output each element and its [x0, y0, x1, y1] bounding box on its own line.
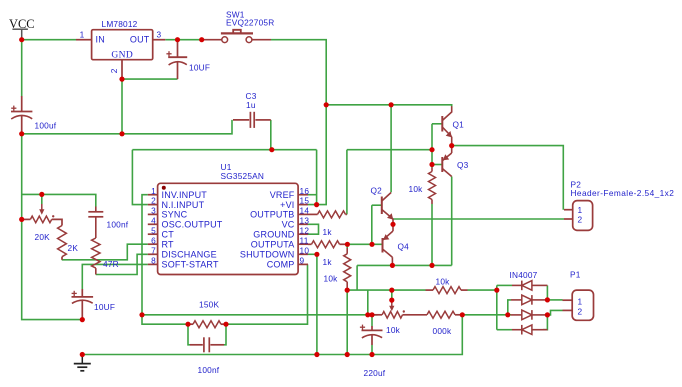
svg-text:10UF: 10UF	[94, 302, 115, 312]
wire 10k2 to bottom rail	[346, 290, 348, 354]
wire D1 left lead	[497, 284, 512, 286]
diode D1 IN4007	[512, 281, 547, 291]
wire Q2 emitter to P2 pin2	[393, 218, 564, 220]
wire 1k to Q4 base	[347, 243, 382, 245]
wire VREF drop to pin16	[316, 150, 318, 205]
resistor 1k pin11	[308, 241, 347, 248]
wire VC to GROUND loop	[308, 224, 319, 234]
resistor 2K	[58, 226, 67, 260]
wire 10k to collector bus	[431, 204, 433, 265]
svg-text:1k: 1k	[323, 257, 333, 267]
capacitor 10UF bottom	[72, 289, 94, 320]
label 10UF top	[189, 63, 210, 73]
svg-text:IN: IN	[96, 35, 105, 45]
svg-text:7: 7	[151, 245, 156, 255]
resistor 1k pin14	[308, 211, 347, 218]
svg-text:Q3: Q3	[457, 160, 469, 170]
label 150K	[199, 300, 219, 310]
label Header-Female-2.54_1x2	[571, 188, 675, 198]
label 1k pin11	[323, 257, 333, 267]
wire INV.INPUT down	[142, 195, 148, 315]
potentiometer 20K	[22, 204, 62, 226]
svg-text:N.I.INPUT: N.I.INPUT	[162, 200, 205, 210]
label 47R	[103, 259, 119, 269]
capacitor C3	[233, 112, 271, 128]
label 20K	[35, 232, 51, 242]
svg-text:1: 1	[151, 186, 156, 196]
svg-text:5: 5	[151, 225, 156, 235]
svg-text:100nf: 100nf	[198, 365, 220, 375]
svg-text:15: 15	[300, 196, 310, 206]
wire collector bus	[357, 264, 452, 266]
wire VCC to LM78012 IN	[22, 39, 76, 41]
pin number 3 of U2	[157, 29, 162, 39]
svg-text:OUTPUTB: OUTPUTB	[250, 210, 294, 220]
wire Q3 base	[432, 164, 442, 166]
svg-text:1k: 1k	[323, 227, 333, 237]
regulator U2 LM78012 body	[76, 30, 165, 79]
wire SHUTDOWN to bottom rail	[316, 254, 318, 354]
svg-text:CT: CT	[162, 230, 175, 240]
label Q4	[398, 241, 410, 251]
pin names right of U1	[240, 190, 295, 270]
svg-text:4: 4	[151, 215, 156, 225]
svg-text:3: 3	[151, 206, 156, 216]
wire left rail	[22, 132, 83, 320]
wire bridge left vertical	[496, 285, 498, 329]
label Q2	[371, 185, 383, 195]
wire D2 left vertical	[508, 300, 511, 315]
wire 000k to bridge	[462, 314, 511, 316]
wire Q2 Q4 base vertical	[371, 205, 373, 244]
wire Q2 base	[372, 204, 382, 206]
pin names left of U1	[162, 190, 223, 270]
pin number 1 of U2	[80, 29, 85, 39]
wire rectifier feed row	[347, 289, 425, 291]
diode D3 IN4007	[511, 310, 547, 320]
svg-text:000k: 000k	[433, 326, 452, 336]
svg-text:Header-Female-2.54_1x2: Header-Female-2.54_1x2	[571, 188, 675, 198]
svg-text:10k: 10k	[386, 325, 401, 335]
wire LM78012 OUT to SW1	[165, 39, 201, 41]
transistor Q1	[442, 106, 452, 137]
wire 100nf right link	[224, 324, 226, 345]
pin numbers right of U1	[300, 186, 310, 266]
wire switched VCC horizontal	[326, 105, 452, 107]
wire D3-D4 right vertical	[543, 315, 547, 330]
label 2K	[68, 243, 79, 253]
potentiometer 10k	[374, 300, 410, 318]
label U1	[221, 162, 232, 172]
wire D4 left lead	[497, 329, 512, 331]
svg-text:VREF: VREF	[270, 190, 295, 200]
pin number 1 of P2	[578, 205, 583, 215]
wire LM GND down	[121, 79, 123, 134]
wire output node to P2	[452, 146, 564, 210]
label SG3525AN	[221, 171, 265, 181]
svg-text:GND: GND	[111, 51, 133, 61]
wire bridge to P1 pin1	[547, 299, 562, 301]
svg-text:10k: 10k	[324, 273, 339, 283]
wire OUTPUTB to Q1 base	[347, 149, 432, 151]
pin number 1 of P1	[578, 297, 583, 307]
label C3	[246, 91, 257, 101]
pin 2 label GND	[111, 51, 133, 61]
wire bridge to P1 pin2	[547, 310, 562, 315]
svg-text:10k: 10k	[409, 184, 424, 194]
svg-text:11: 11	[300, 235, 309, 245]
svg-text:SHUTDOWN: SHUTDOWN	[240, 250, 295, 260]
wire pot-left drop	[367, 290, 369, 315]
svg-text:RT: RT	[162, 240, 175, 250]
svg-text:100nf: 100nf	[107, 219, 129, 229]
label Q3	[457, 160, 469, 170]
capacitor 220uf	[360, 325, 383, 345]
wire Q1 base	[432, 123, 442, 125]
wire SW1 to +VI	[271, 40, 326, 205]
svg-text:14: 14	[300, 206, 310, 216]
wire bus drop left	[356, 265, 358, 290]
label 100nf left	[107, 219, 129, 229]
connector P2 body	[564, 201, 593, 231]
svg-text:13: 13	[300, 215, 310, 225]
pin numbers left of U1	[151, 186, 156, 266]
pin 3 label OUT	[130, 35, 150, 45]
label P2	[571, 179, 582, 189]
transistor Q3	[442, 137, 451, 177]
svg-text:1u: 1u	[246, 100, 256, 110]
wire 10k2 bottom link	[346, 288, 348, 290]
svg-text:2: 2	[578, 215, 583, 225]
capacitor 100uf	[11, 96, 32, 133]
label Q1	[453, 119, 465, 129]
resistor 150K	[188, 321, 226, 328]
wire VREF to N.I.INPUT	[132, 150, 147, 205]
svg-text:GROUND: GROUND	[253, 230, 294, 240]
capacitor 100nf bottom	[190, 337, 224, 352]
svg-text:OUT: OUT	[130, 35, 150, 45]
svg-text:Q1: Q1	[453, 119, 465, 129]
capacitor 10UF top	[166, 40, 187, 79]
svg-text:SYNC: SYNC	[162, 210, 188, 220]
wire node A horizontal	[22, 194, 96, 206]
pin number 2 of P2	[578, 215, 583, 225]
label 10k right	[436, 276, 451, 286]
wire 10k out to bridge	[468, 289, 497, 291]
svg-text:VC: VC	[282, 220, 295, 230]
wire VREF horizontal	[132, 149, 316, 151]
transistor Q2	[382, 193, 393, 220]
diode D2 IN4007	[511, 295, 547, 305]
resistor 000k	[410, 311, 462, 318]
svg-text:12: 12	[300, 225, 310, 235]
svg-text:8: 8	[151, 256, 156, 266]
label EVQ22705R	[226, 18, 274, 28]
resistor 10k upper	[429, 168, 436, 205]
label 100uf	[35, 121, 57, 131]
diode D4 IN4007	[512, 325, 547, 335]
resistor 10k right	[426, 287, 468, 294]
svg-text:EVQ22705R: EVQ22705R	[226, 18, 274, 28]
svg-text:INV.INPUT: INV.INPUT	[162, 190, 208, 200]
svg-text:10UF: 10UF	[189, 63, 210, 73]
wire pot wiper link	[391, 290, 393, 300]
label P1	[570, 269, 581, 279]
svg-text:+VI: +VI	[280, 200, 294, 210]
wire 10k2 top link	[346, 244, 348, 248]
pin number 2 of P1	[578, 307, 583, 317]
ground	[74, 355, 91, 371]
svg-text:47R: 47R	[103, 259, 119, 269]
wire D1-D2 right vertical	[546, 285, 548, 300]
label IN4007	[510, 270, 538, 280]
svg-text:IN4007: IN4007	[510, 270, 538, 280]
resistor 10k mid	[344, 248, 351, 288]
wire Q1 Q3 base vertical	[431, 124, 433, 168]
label 10UF bottom	[94, 302, 115, 312]
svg-text:1: 1	[578, 205, 583, 215]
svg-text:2: 2	[578, 307, 583, 317]
svg-text:150K: 150K	[199, 300, 219, 310]
label 000k	[433, 326, 452, 336]
wire RT to 2K	[62, 244, 148, 260]
label 1u value	[246, 100, 256, 110]
svg-text:SG3525AN: SG3525AN	[221, 171, 265, 181]
label 10k pot	[386, 325, 401, 335]
pin 1 marker of U1	[162, 186, 166, 190]
label 1k pin14	[323, 227, 333, 237]
label SW1	[226, 9, 245, 19]
svg-text:2: 2	[109, 68, 119, 73]
pin number 2 of U2	[109, 68, 119, 73]
wire C3 left to ground net	[22, 120, 232, 134]
pin 1 label IN	[96, 35, 105, 45]
wire to 150K left	[142, 315, 188, 324]
svg-text:OUTPUTA: OUTPUTA	[251, 240, 295, 250]
svg-text:10k: 10k	[436, 276, 451, 286]
wire 220uf top link	[371, 315, 373, 327]
svg-text:DISCHANGE: DISCHANGE	[162, 250, 217, 260]
wire 150K right to COMP	[226, 264, 308, 324]
svg-text:P1: P1	[570, 269, 581, 279]
label 10k mid	[324, 273, 339, 283]
wire Q3 collector down	[451, 177, 453, 266]
svg-text:OSC.OUTPUT: OSC.OUTPUT	[162, 220, 223, 230]
switch SW1 EVQ22705R	[202, 30, 271, 43]
wire bottom rail	[82, 315, 462, 355]
wire 100nf left link	[188, 324, 190, 345]
svg-text:9: 9	[300, 256, 305, 266]
svg-text:100uf: 100uf	[35, 121, 57, 131]
resistor 47R	[92, 238, 100, 275]
svg-text:16: 16	[300, 186, 310, 196]
svg-text:20K: 20K	[35, 232, 51, 242]
power flag VCC	[9, 17, 34, 39]
svg-text:2K: 2K	[68, 243, 79, 253]
svg-text:COMP: COMP	[267, 260, 295, 270]
connector P1 body	[563, 290, 594, 320]
svg-text:10: 10	[300, 245, 310, 255]
wire C3 right lead down	[270, 120, 272, 150]
wire 220uf bottom link	[371, 345, 373, 355]
wire 20K wiper	[41, 194, 43, 204]
svg-text:Q2: Q2	[371, 185, 383, 195]
svg-text:3: 3	[157, 29, 162, 39]
wire SOFT-START to 10UF	[82, 264, 148, 289]
label 220uf	[364, 368, 386, 378]
label 100nf bottom	[198, 365, 220, 375]
wire LM GND to 10UF	[122, 78, 178, 80]
op-amp U1 SG3525AN body	[148, 183, 308, 274]
svg-text:6: 6	[151, 235, 156, 245]
wire Q2 collector riser	[390, 105, 392, 193]
capacitor 100nf left	[88, 207, 103, 239]
wire DISCHARGE to 47R	[96, 254, 148, 274]
wire SHUTDOWN stub link	[308, 253, 317, 255]
svg-text:1: 1	[578, 297, 583, 307]
svg-text:2: 2	[151, 196, 156, 206]
wire INV feedback row	[142, 314, 378, 316]
svg-text:SOFT-START: SOFT-START	[162, 260, 219, 270]
wire pin16 stub link	[308, 194, 317, 196]
svg-text:1: 1	[80, 29, 85, 39]
label 10k upper	[409, 184, 424, 194]
svg-text:220uf: 220uf	[364, 368, 386, 378]
svg-text:LM78012: LM78012	[102, 19, 138, 29]
wire OUTPUTB riser	[346, 150, 348, 215]
transistor Q4	[383, 219, 394, 265]
label LM78012	[102, 19, 138, 29]
wire VCC rail upper	[21, 40, 23, 97]
svg-text:Q4: Q4	[398, 241, 410, 251]
